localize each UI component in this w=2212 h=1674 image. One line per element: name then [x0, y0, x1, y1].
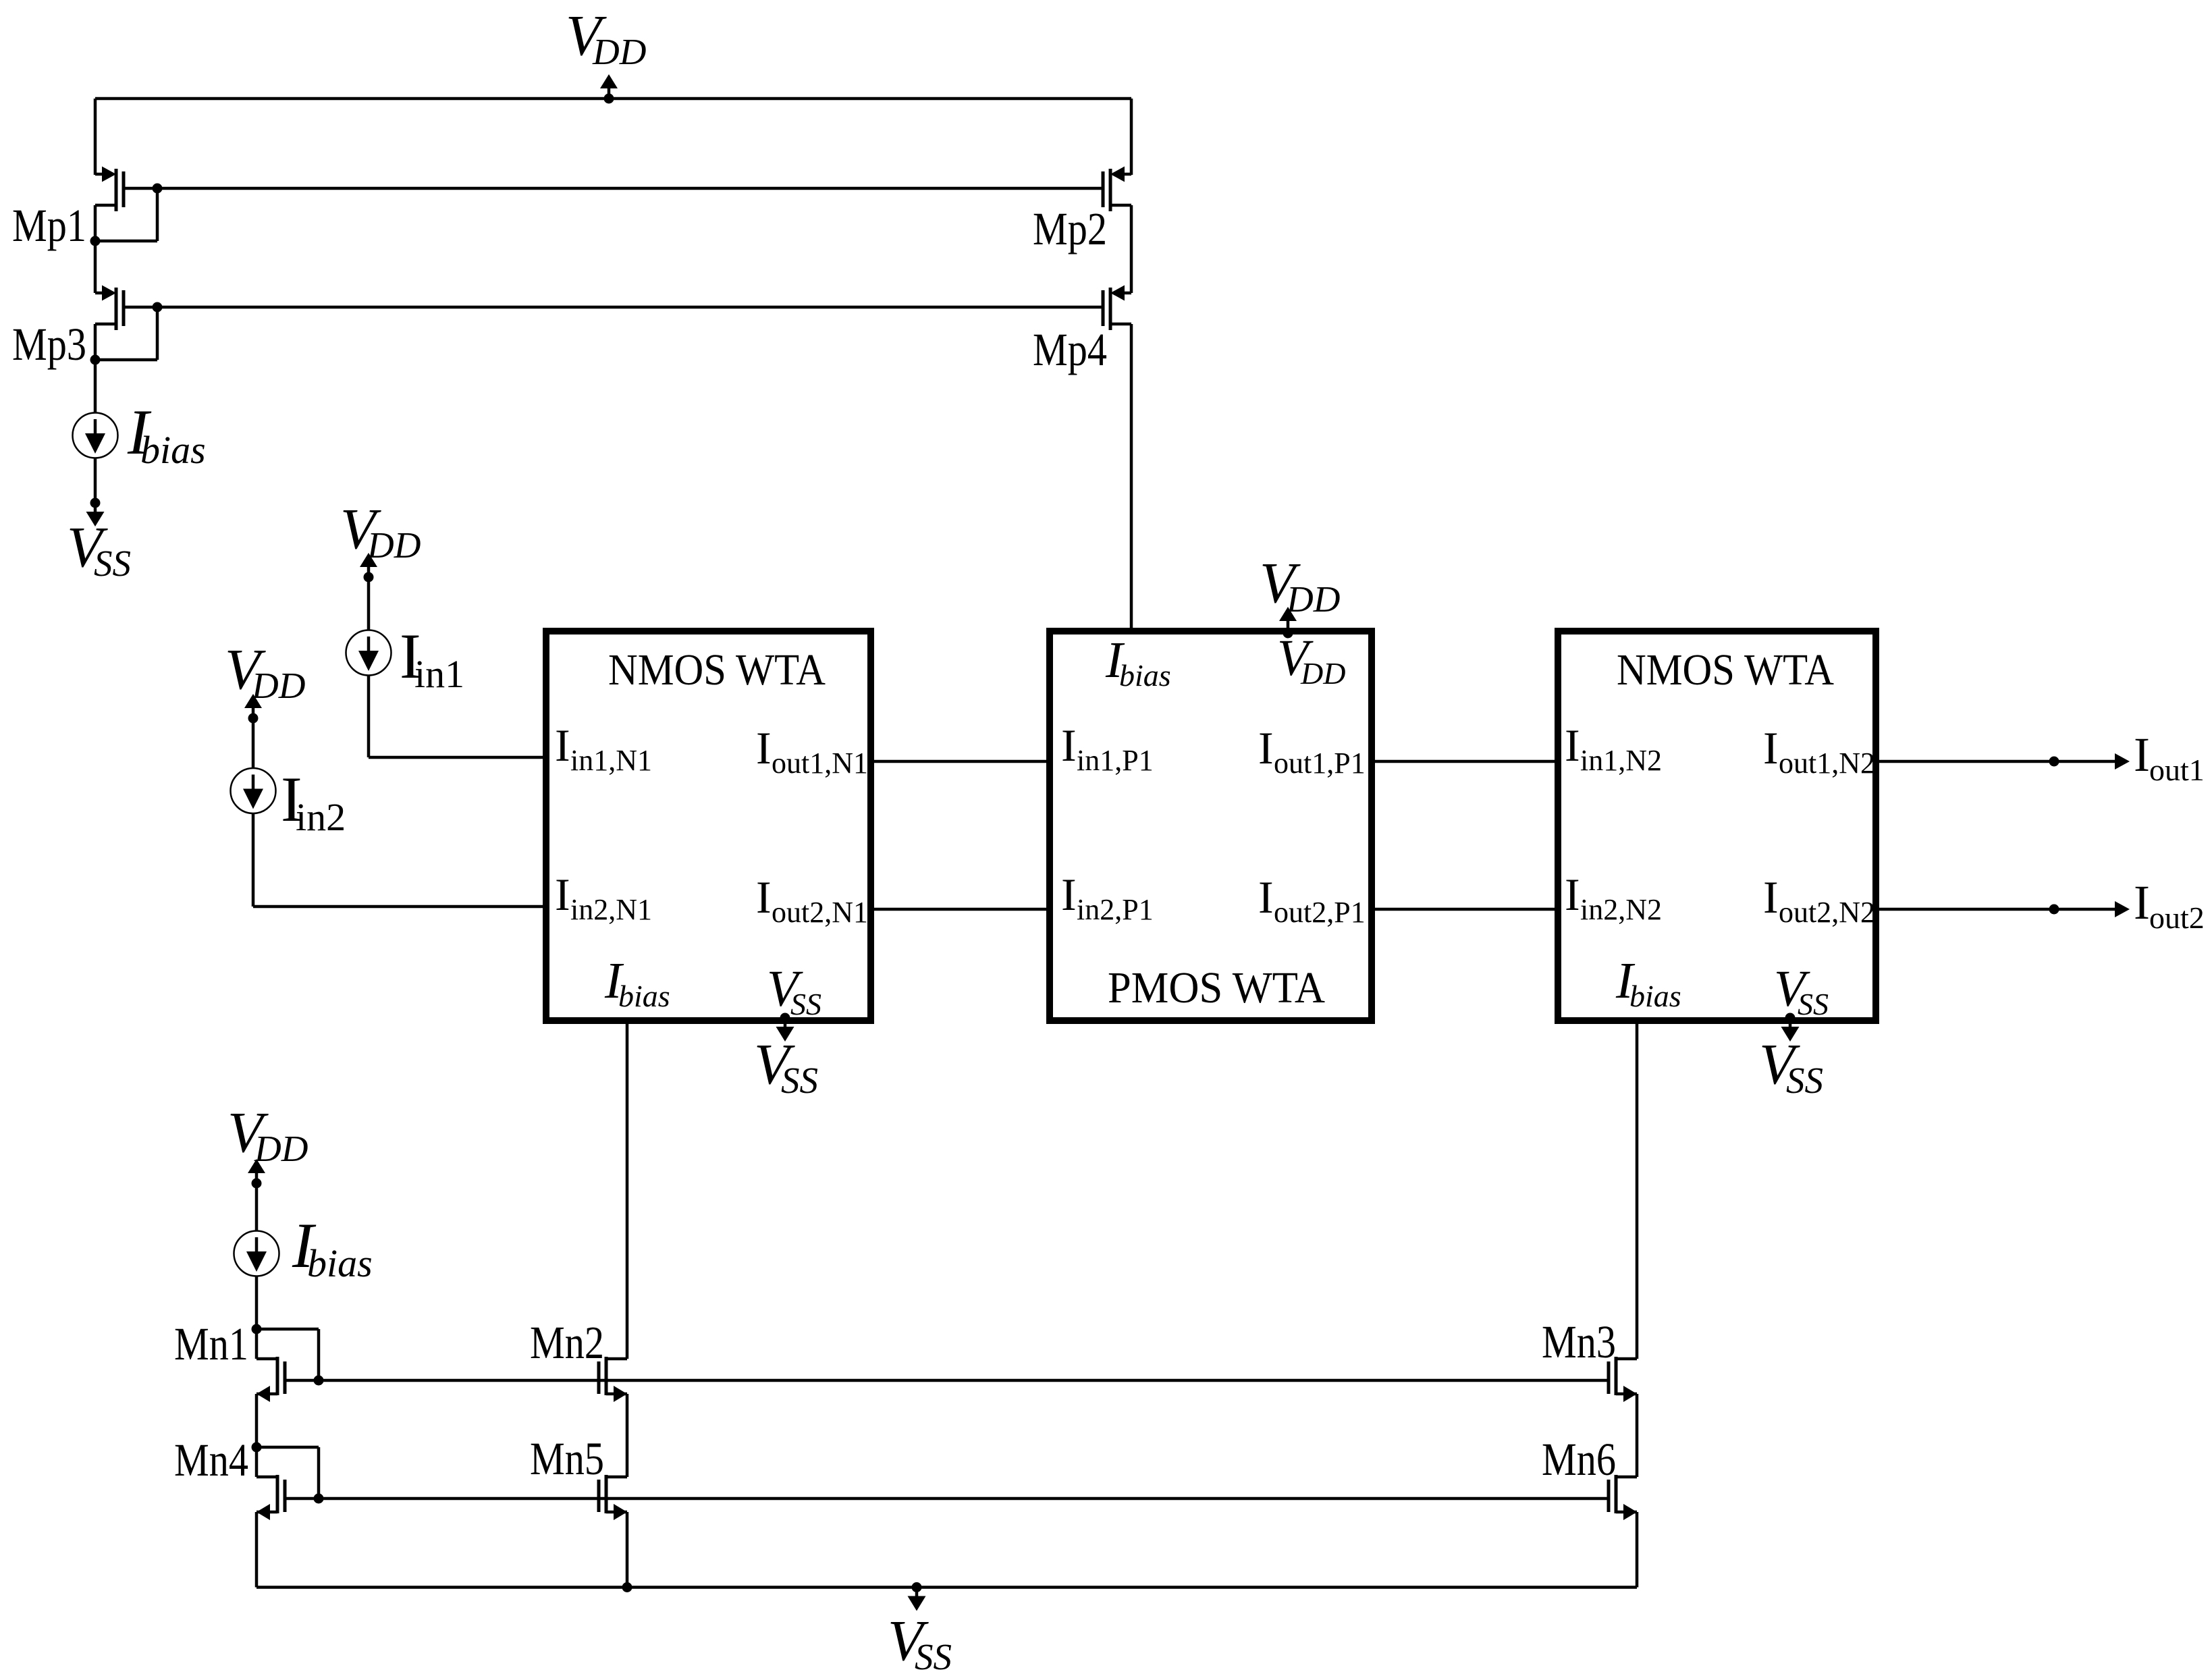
wire NMOS WTA 2 Iout2 to output Iout2 [1876, 908, 2115, 911]
wire Mn4 source down to VSS rail [255, 1512, 259, 1588]
svg-text:I: I [1763, 722, 1779, 774]
junction dot Mn1 gate [314, 1376, 324, 1386]
transistor Mn5 source arrow [614, 1504, 627, 1520]
current source Ibias top-left circle [73, 413, 118, 458]
svg-text:SS: SS [790, 987, 821, 1021]
transistor Mn2 gate bar [597, 1361, 601, 1394]
svg-text:in1,N2: in1,N2 [1580, 744, 1662, 777]
svg-text:SS: SS [1786, 1060, 1823, 1101]
node dot on Iout2 wire [2049, 905, 2059, 915]
svg-text:I: I [2134, 875, 2150, 929]
transistor Mn4 gate bar [284, 1480, 287, 1512]
wire left column Mp3 drain to Ibias [94, 324, 97, 413]
wire PMOS WTA Iout2 to NMOS WTA 2 Iin2 [1369, 908, 1561, 911]
wire VDD to Iin2 source [252, 718, 255, 768]
transistor Mn3 (NMOS) drain stub [1616, 1357, 1637, 1361]
current source Iin1 arrow [367, 637, 371, 651]
transistor Mp1 drain stub [95, 204, 116, 207]
svg-text:DD: DD [251, 665, 305, 706]
current source Iin2 circle [231, 768, 276, 813]
svg-text:I: I [1061, 720, 1077, 771]
svg-text:out2,N1: out2,N1 [772, 896, 868, 929]
wire Mn1 drain-gate feedback [257, 1328, 319, 1331]
wire NMOS WTA 1 Ibias port down to Mn2 drain [626, 1024, 629, 1359]
node dot Mn1 drain [252, 1324, 262, 1334]
svg-text:DD: DD [367, 524, 421, 566]
svg-text:in2: in2 [296, 795, 346, 839]
wire Ibias source to Mn1 drain node [255, 1276, 259, 1359]
junction dot Mp1 gate [153, 184, 163, 194]
svg-text:Mn5: Mn5 [530, 1433, 604, 1484]
transistor Mp1 channel bar [115, 169, 118, 211]
svg-text:bias: bias [307, 1241, 373, 1285]
power VDD arrow (top rail) [608, 88, 611, 99]
transistor Mn1 (NMOS) drain stub [257, 1357, 277, 1361]
transistor Mn3 source arrow [1623, 1386, 1637, 1402]
wire NMOS WTA 1 Iout1 to PMOS WTA Iin1 [871, 760, 1053, 763]
block PMOS WTA box [1050, 631, 1372, 1021]
transistor Mn3 channel bar [1615, 1357, 1618, 1395]
svg-text:out1,P1: out1,P1 [1274, 747, 1366, 780]
node dot Mp3 drain (node B) [90, 355, 101, 365]
svg-text:I: I [1258, 871, 1274, 923]
svg-text:SS: SS [94, 543, 131, 584]
wire NMOS WTA 2 Ibias port down to Mn3 drain [1636, 1024, 1639, 1359]
power VDD node dot (Iin2 supply) [248, 713, 259, 724]
transistor Mn2 source arrow [614, 1386, 627, 1402]
transistor Mp1 source arrow [102, 167, 116, 182]
wire Mn1 source to Mn4 drain [255, 1394, 259, 1477]
wire left column Mp1 drain to Mp3 source [94, 205, 97, 293]
svg-text:in1,N1: in1,N1 [570, 744, 652, 777]
svg-text:Mp1: Mp1 [12, 200, 86, 251]
transistor Mp1 gate bar [122, 171, 126, 207]
transistor Mn1 source stub [257, 1393, 277, 1396]
svg-text:SS: SS [781, 1060, 818, 1101]
power VSS node dot (NMOS WTA 1) [780, 1013, 790, 1023]
transistor Mn6 gate bar [1607, 1480, 1611, 1512]
transistor Mp2 source arrow [1110, 167, 1125, 182]
svg-text:I: I [1565, 869, 1580, 920]
transistor Mp3 (PMOS) source stub [95, 292, 103, 295]
power VDD arrow (Iin2 supply) [252, 707, 255, 718]
transistor Mn6 source stub [1616, 1511, 1637, 1514]
svg-text:out1: out1 [2149, 753, 2205, 787]
node dot on Iout1 wire [2049, 757, 2059, 767]
svg-text:I: I [1258, 722, 1274, 774]
power VSS arrow (NMOS WTA 1) [784, 1018, 787, 1027]
svg-text:out1,N2: out1,N2 [1779, 747, 1875, 780]
transistor Mn1 gate bar [284, 1361, 287, 1394]
block NMOS WTA 1 box [546, 631, 871, 1021]
node dot Mn4 drain [252, 1442, 262, 1453]
power VDD node dot (top rail) [604, 94, 614, 104]
wire VDD to Ibias source (bottom) [255, 1183, 259, 1231]
wire Iin2 to NMOS WTA 1 input 2 [252, 813, 255, 907]
current source Ibias bottom circle [234, 1231, 279, 1276]
svg-text:Mp3: Mp3 [12, 319, 86, 370]
svg-text:DD: DD [592, 31, 646, 72]
wire NMOS WTA 1 Iout2 to PMOS WTA Iin2 [871, 908, 1053, 911]
svg-text:I: I [555, 720, 570, 771]
svg-text:PMOS WTA: PMOS WTA [1108, 963, 1325, 1013]
wire Mn4 drain-gate feedback [257, 1446, 319, 1449]
svg-text:Mn4: Mn4 [174, 1434, 248, 1486]
svg-text:Mn2: Mn2 [530, 1317, 604, 1368]
transistor Mn5 channel bar [605, 1475, 608, 1513]
power VDD node dot (Iin1 supply) [364, 572, 374, 583]
transistor Mp3 source arrow [102, 286, 116, 301]
wire Mp3 gate-drain feedback [156, 307, 159, 360]
wire Mn3 source to Mn6 drain [1636, 1394, 1639, 1477]
svg-text:out2,N2: out2,N2 [1779, 896, 1875, 929]
transistor Mn3 source stub [1616, 1393, 1637, 1396]
svg-text:I: I [1565, 720, 1580, 771]
power VDD arrow (Ibias bottom supply) [255, 1172, 259, 1183]
svg-text:DD: DD [1300, 656, 1345, 691]
transistor Mn5 source stub [606, 1511, 627, 1514]
svg-text:SS: SS [915, 1636, 952, 1674]
wire top VDD rail [95, 97, 1131, 101]
wire NMOS WTA 2 Iout1 to output Iout1 [1876, 760, 2115, 763]
transistor Mn2 (NMOS) drain stub [606, 1357, 627, 1361]
power VSS node dot (NMOS WTA 2) [1785, 1013, 1796, 1023]
svg-text:in2,N1: in2,N1 [570, 893, 652, 926]
wire bottom VSS rail [257, 1586, 1637, 1589]
svg-text:NMOS WTA: NMOS WTA [1617, 645, 1834, 695]
svg-text:Mp4: Mp4 [1033, 324, 1107, 375]
wire Mn6 source down to VSS rail [1636, 1512, 1639, 1588]
wire right column Mp4 drain down to PMOS WTA Ibias port [1130, 324, 1133, 631]
transistor Mp4 source arrow [1110, 286, 1125, 301]
current source Ibias top-left arrow [94, 419, 97, 434]
transistor Mp4 (PMOS) source stub [1124, 292, 1131, 295]
transistor Mn5 (NMOS) drain stub [606, 1476, 627, 1479]
junction dot Mn5 source on VSS rail [622, 1582, 632, 1592]
wire Mp1 gate-drain feedback [156, 188, 159, 241]
transistor Mn2 channel bar [605, 1357, 608, 1395]
transistor Mp2 drain stub [1110, 204, 1131, 207]
svg-text:out2,P1: out2,P1 [1274, 896, 1366, 929]
power VSS node dot (top-left) [90, 498, 101, 508]
svg-text:out2: out2 [2149, 900, 2205, 935]
power VSS node dot (bottom rail) [912, 1582, 922, 1592]
current source Iin2 arrow [252, 775, 255, 790]
power VDD arrow (PMOS WTA port) [1287, 621, 1290, 633]
svg-text:bias: bias [1629, 979, 1681, 1013]
svg-text:I: I [1763, 871, 1779, 923]
current source Iin1 circle [346, 630, 392, 676]
svg-text:NMOS WTA: NMOS WTA [608, 645, 826, 695]
wire Mn5 source down to VSS rail [626, 1512, 629, 1588]
transistor Mn2 source stub [606, 1393, 627, 1396]
wire gate rail Mn1-Mn2-Mn3 [285, 1379, 1609, 1382]
wire Iin1 to NMOS WTA 1 input 1 [367, 676, 371, 758]
svg-text:Mn6: Mn6 [1542, 1434, 1616, 1485]
transistor Mn6 (NMOS) drain stub [1616, 1476, 1637, 1479]
power VSS arrow (bottom rail) [915, 1588, 919, 1597]
svg-text:out1,N1: out1,N1 [772, 747, 868, 780]
transistor Mn6 channel bar [1615, 1475, 1618, 1513]
transistor Mn5 gate bar [597, 1480, 601, 1512]
transistor Mp4 channel bar [1109, 288, 1112, 330]
svg-text:I: I [756, 871, 772, 923]
svg-text:I: I [555, 869, 570, 920]
svg-text:in2,N2: in2,N2 [1580, 893, 1662, 926]
block NMOS WTA 2 box [1558, 631, 1876, 1021]
svg-text:Mn3: Mn3 [1542, 1316, 1616, 1368]
wire PMOS WTA Iout1 to NMOS WTA 2 Iin1 [1369, 760, 1561, 763]
power VDD arrow (Iin1 supply) [367, 566, 371, 577]
wire right column (VDD rail to Mp2 source) [1130, 99, 1133, 175]
transistor Mp3 drain stub [95, 323, 116, 326]
svg-text:DD: DD [1286, 578, 1340, 620]
transistor Mp1 (PMOS) source stub [95, 173, 103, 176]
transistor Mp3 channel bar [115, 288, 118, 330]
transistor Mp2 channel bar [1109, 169, 1112, 211]
wire gate rail Mp1-Mp2 [124, 187, 1103, 190]
transistor Mn6 source arrow [1623, 1504, 1637, 1520]
transistor Mn4 source arrow [257, 1504, 270, 1520]
power VSS arrow (NMOS WTA 2) [1789, 1018, 1792, 1027]
svg-text:Mp2: Mp2 [1033, 203, 1107, 254]
svg-text:I: I [2134, 728, 2150, 782]
transistor Mp3 gate bar [122, 290, 126, 326]
arrowhead output Iout2 [2115, 901, 2130, 917]
transistor Mp2 (PMOS) source stub [1124, 173, 1131, 176]
current source Ibias bottom arrow [255, 1237, 259, 1252]
transistor Mn4 source stub [257, 1511, 277, 1514]
transistor Mp4 drain stub [1110, 323, 1131, 326]
svg-text:in2,P1: in2,P1 [1077, 893, 1154, 926]
arrowhead output Iout1 [2115, 753, 2130, 769]
power VSS arrow (top-left) [94, 503, 97, 512]
svg-text:Mn1: Mn1 [174, 1318, 248, 1370]
transistor Mn1 channel bar [276, 1357, 279, 1395]
svg-text:bias: bias [140, 428, 206, 472]
svg-text:bias: bias [618, 979, 670, 1013]
svg-text:bias: bias [1119, 658, 1171, 693]
wire gate rail Mn4-Mn5-Mn6 [285, 1497, 1609, 1501]
transistor Mn4 (NMOS) drain stub [257, 1476, 277, 1479]
wire Mn2 source to Mn5 drain [626, 1394, 629, 1477]
wire Ibias to VSS (top-left) [94, 458, 97, 504]
transistor Mn3 gate bar [1607, 1361, 1611, 1394]
svg-text:DD: DD [254, 1128, 308, 1169]
wire gate rail Mp3-Mp4 [124, 306, 1103, 309]
svg-text:in1: in1 [414, 652, 464, 696]
transistor Mp4 gate bar [1102, 290, 1105, 326]
wire left column upper segment (VDD rail to Mp1 source) [94, 99, 97, 175]
transistor Mp2 gate bar [1102, 171, 1105, 207]
svg-text:I: I [756, 722, 772, 774]
wire right column Mp2 drain to Mp4 source [1130, 205, 1133, 293]
junction dot Mn4 gate [314, 1494, 324, 1504]
transistor Mn4 channel bar [276, 1475, 279, 1513]
svg-text:in1,P1: in1,P1 [1077, 744, 1154, 777]
transistor Mn1 source arrow [257, 1386, 270, 1402]
svg-text:I: I [1061, 869, 1077, 920]
wire VDD to Iin1 source [367, 577, 371, 630]
node dot Mp1 drain (node A) [90, 236, 101, 246]
power VDD node dot (PMOS WTA port) [1283, 628, 1293, 639]
junction dot Mp3 gate [153, 302, 163, 313]
power VDD node dot (Ibias bottom supply) [252, 1179, 262, 1189]
svg-text:SS: SS [1798, 987, 1829, 1021]
